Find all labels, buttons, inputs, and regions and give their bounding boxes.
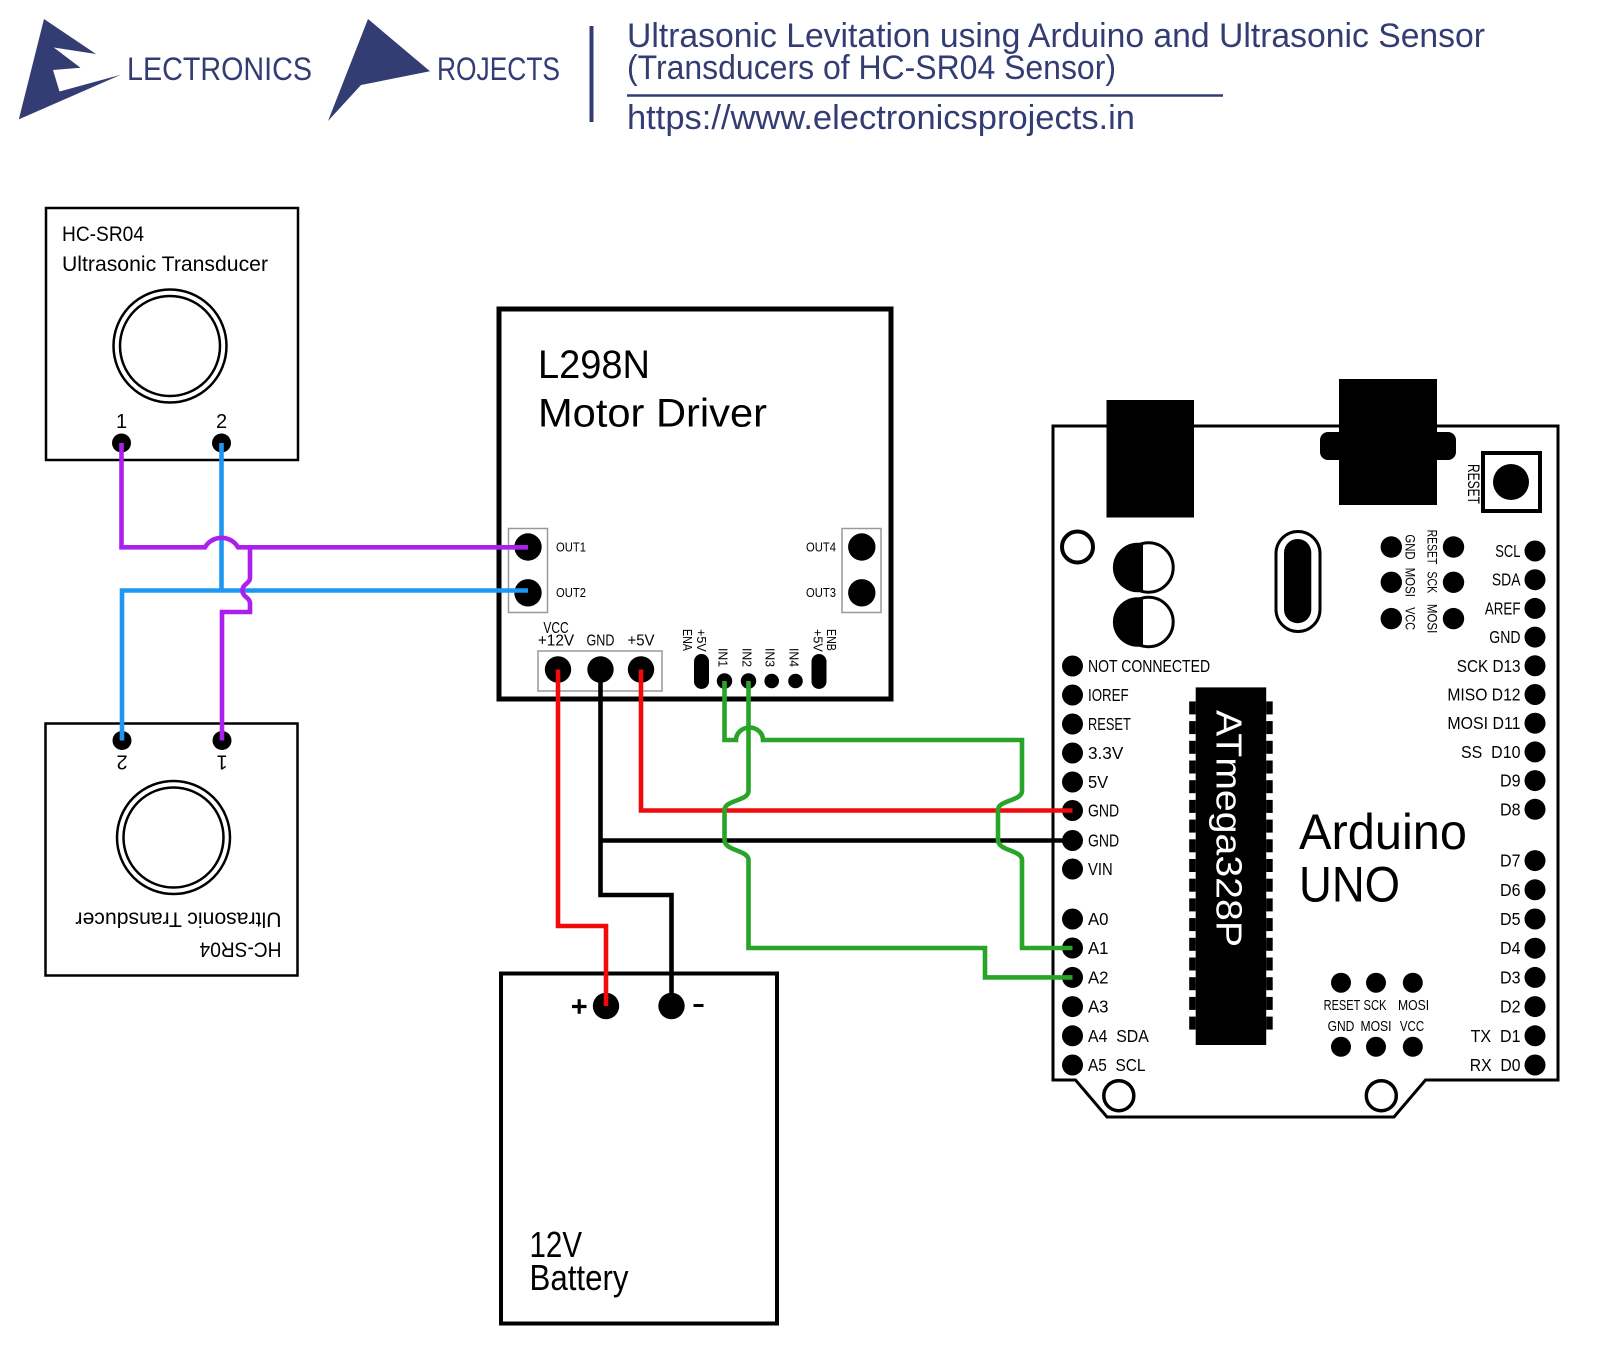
svg-text:TX D1: TX D1: [1471, 1026, 1521, 1046]
svg-text:GND: GND: [1088, 801, 1119, 821]
svg-text:OUT4: OUT4: [806, 539, 836, 554]
svg-text:Arduino: Arduino: [1299, 804, 1467, 860]
svg-text:UNO: UNO: [1299, 857, 1400, 913]
svg-text:2: 2: [216, 411, 227, 433]
svg-text:MOSI: MOSI: [1398, 997, 1429, 1014]
svg-text:OUT3: OUT3: [806, 585, 836, 600]
svg-text:MISO D12: MISO D12: [1447, 685, 1520, 705]
svg-text:GND: GND: [1403, 534, 1419, 559]
svg-text:RESET: RESET: [1425, 530, 1441, 565]
svg-text:GND: GND: [1489, 627, 1520, 647]
svg-text:LECTRONICS: LECTRONICS: [127, 51, 312, 87]
svg-text:GND: GND: [1328, 1018, 1355, 1035]
svg-text:D3: D3: [1500, 967, 1521, 987]
svg-text:D8: D8: [1500, 799, 1521, 819]
svg-text:SS D10: SS D10: [1461, 742, 1521, 762]
svg-text:D9: D9: [1500, 771, 1521, 791]
svg-text:Motor Driver: Motor Driver: [538, 392, 767, 436]
svg-text:VCC: VCC: [1403, 607, 1419, 630]
svg-text:L298N: L298N: [538, 343, 650, 387]
svg-text:HC-SR04: HC-SR04: [62, 223, 144, 246]
svg-text:A1: A1: [1088, 938, 1109, 958]
svg-text:D4: D4: [1500, 938, 1521, 958]
svg-text:ENB: ENB: [824, 629, 839, 651]
svg-text:A0: A0: [1088, 909, 1109, 929]
svg-text:GND: GND: [587, 633, 615, 650]
svg-text:SCK: SCK: [1364, 997, 1387, 1014]
svg-text:IN2: IN2: [740, 648, 755, 667]
svg-text:OUT1: OUT1: [556, 539, 586, 554]
svg-text:https://www.electronicsproject: https://www.electronicsprojects.in: [627, 99, 1135, 137]
svg-text:3.3V: 3.3V: [1088, 743, 1124, 763]
svg-text:RESET: RESET: [1088, 714, 1131, 734]
svg-text:SCK D13: SCK D13: [1457, 656, 1521, 676]
svg-text:AREF: AREF: [1485, 598, 1521, 618]
svg-text:+5V: +5V: [811, 629, 826, 652]
svg-text:D2: D2: [1500, 997, 1521, 1017]
svg-text:A5 SCL: A5 SCL: [1088, 1055, 1146, 1075]
svg-text:A4 SDA: A4 SDA: [1088, 1026, 1149, 1046]
svg-text:MOSI D11: MOSI D11: [1447, 713, 1520, 733]
svg-text:GND: GND: [1088, 831, 1119, 851]
svg-text:OUT2: OUT2: [556, 585, 586, 600]
svg-text:IN3: IN3: [763, 648, 778, 667]
svg-text:MOSI: MOSI: [1360, 1018, 1391, 1035]
svg-text:Battery: Battery: [530, 1257, 629, 1298]
svg-text:VCC: VCC: [1400, 1018, 1424, 1035]
svg-text:SCK: SCK: [1425, 571, 1441, 593]
svg-text:ROJECTS: ROJECTS: [437, 51, 560, 87]
svg-text:MOSI: MOSI: [1403, 568, 1419, 597]
svg-text:RX D0: RX D0: [1470, 1055, 1521, 1075]
svg-text:SDA: SDA: [1492, 570, 1521, 590]
svg-text:VIN: VIN: [1088, 859, 1113, 879]
svg-text:ENA: ENA: [680, 629, 695, 651]
svg-text:MOSI: MOSI: [1425, 604, 1441, 633]
svg-text:+5V: +5V: [694, 629, 709, 652]
svg-text:D6: D6: [1500, 880, 1521, 900]
svg-text:Ultrasonic Transducer: Ultrasonic Transducer: [62, 253, 268, 276]
svg-text:IN1: IN1: [716, 648, 731, 667]
svg-text:A2: A2: [1088, 967, 1109, 987]
svg-text:NOT CONNECTED: NOT CONNECTED: [1088, 656, 1210, 676]
svg-text:SCL: SCL: [1495, 541, 1520, 561]
svg-text:RESET: RESET: [1324, 997, 1361, 1014]
svg-text:(Transducers of HC-SR04 Sensor: (Transducers of HC-SR04 Sensor): [627, 49, 1116, 87]
svg-text:D5: D5: [1500, 909, 1521, 929]
svg-text:RESET: RESET: [1464, 464, 1483, 504]
svg-text:A3: A3: [1088, 997, 1109, 1017]
svg-text:D7: D7: [1500, 851, 1521, 871]
svg-text:IOREF: IOREF: [1088, 685, 1129, 705]
svg-text:+5V: +5V: [628, 633, 656, 650]
svg-text:1: 1: [116, 411, 127, 433]
svg-text:IN4: IN4: [787, 648, 802, 667]
svg-text:5V: 5V: [1088, 772, 1109, 792]
svg-text:ATmega328P: ATmega328P: [1209, 710, 1250, 947]
svg-text:+12V: +12V: [538, 633, 575, 650]
